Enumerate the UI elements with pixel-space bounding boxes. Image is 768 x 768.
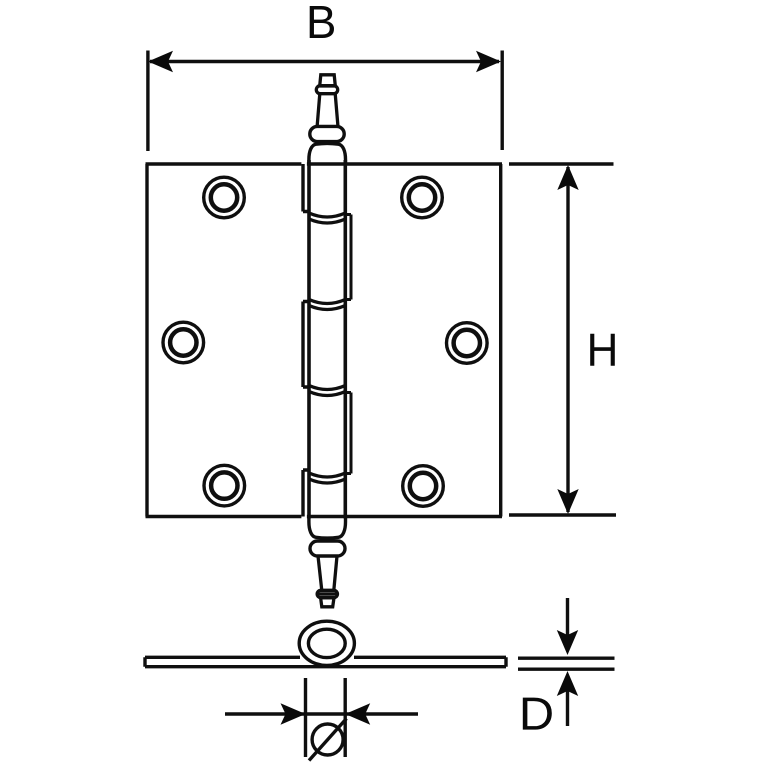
screw hole mid-right — [447, 323, 488, 364]
bottom finial bell — [309, 517, 346, 538]
dimension line diameter — [225, 712, 418, 715]
top finial neck ring — [316, 86, 337, 94]
label D — [523, 698, 552, 730]
leaf edge line bottom-left — [303, 470, 310, 517]
barrel left edge — [307, 160, 311, 519]
screw hole mid-left — [163, 322, 204, 363]
side view knuckle ring outer — [299, 621, 354, 665]
knuckle joint 1 — [309, 213, 345, 223]
bottom finial cone — [318, 556, 337, 591]
label B — [310, 6, 334, 38]
extension line diameter left — [304, 678, 307, 757]
bottom finial knob — [321, 598, 334, 607]
bottom finial neck ring — [317, 590, 337, 597]
hinge plate right edge — [499, 164, 502, 517]
top finial knob — [320, 75, 336, 86]
extension line D bottom — [518, 668, 615, 671]
arrow D up — [566, 689, 569, 726]
label diameter symbol — [312, 724, 343, 755]
screw hole top-right — [402, 177, 443, 218]
side view knuckle ring inner — [308, 629, 345, 657]
label H — [590, 334, 615, 366]
leaf edge line top-left — [303, 164, 310, 212]
top finial collar — [310, 126, 344, 141]
extension line D top — [518, 657, 615, 660]
hinge plate bottom edge — [146, 515, 503, 518]
screw hole bottom-right — [403, 466, 444, 507]
top finial bell — [309, 143, 346, 164]
hinge plate left edge — [145, 164, 148, 517]
knuckle joint 4 — [309, 473, 345, 483]
extension line diameter right — [344, 678, 347, 757]
arrow D down — [566, 598, 569, 637]
hinge plate top edge — [146, 162, 503, 165]
dimension line H — [566, 167, 569, 512]
leaf wrap strip left — [303, 302, 310, 388]
side view plate top line — [145, 656, 506, 659]
knuckle joint 3 — [309, 386, 345, 396]
leaf wrap strip right 2 — [345, 393, 351, 474]
extension line B right — [501, 51, 504, 151]
side view plate end caps — [145, 657, 506, 666]
extension line H top — [509, 162, 614, 165]
extension line H bottom — [509, 513, 616, 516]
side view plate bottom line — [145, 665, 506, 668]
barrel right edge — [343, 160, 347, 519]
bottom finial collar — [310, 541, 345, 556]
top finial cone — [317, 94, 338, 126]
dimension line B — [150, 60, 499, 63]
screw hole top-left — [204, 177, 245, 218]
extension line B left — [146, 51, 149, 152]
knuckle joint 2 — [309, 300, 345, 310]
leaf wrap strip right 1 — [345, 215, 351, 300]
screw hole bottom-left — [204, 465, 245, 506]
